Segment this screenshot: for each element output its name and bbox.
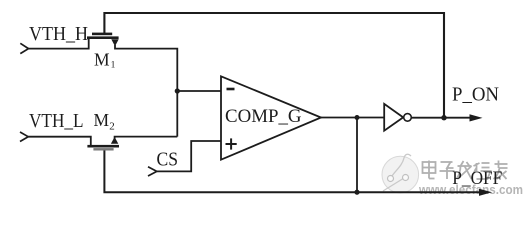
svg-text:2: 2: [109, 120, 115, 132]
input chevron VTH_L: [20, 132, 28, 142]
top rail wire (M1 gate to P_ON node): [104, 13, 444, 117]
svg-text:M: M: [94, 49, 110, 69]
wire VTH_H to M1 source: [29, 39, 89, 49]
wire inverter output to P_ON arrow: [411, 117, 475, 119]
svg-text:VTH_L: VTH_L: [29, 111, 84, 132]
plus input symbol: [226, 138, 237, 149]
svg-text:CS: CS: [157, 148, 179, 170]
minus input symbol: [227, 88, 235, 91]
input chevron VTH_H: [20, 43, 28, 53]
wire output node down to bottom rail: [356, 118, 358, 193]
wire M2 drain to junction A: [115, 137, 178, 143]
svg-text:1: 1: [111, 60, 116, 70]
input chevron CS: [148, 167, 157, 176]
svg-text:M: M: [94, 110, 110, 130]
transistor M1: [87, 33, 119, 47]
svg-text:VTH_H: VTH_H: [29, 24, 88, 45]
wire M2 gate to bottom rail: [104, 150, 484, 192]
junction dot P_ON node: [441, 115, 446, 120]
wire VTH_L to M2 source: [28, 137, 91, 146]
inverter U2: [384, 104, 403, 131]
junction dot node A: [175, 88, 180, 93]
wire M1 drain to junction A: [115, 45, 177, 137]
watermark logo circle: [382, 154, 419, 193]
wire CS to comparator plus input: [157, 141, 221, 171]
junction dot comparator output: [355, 115, 360, 120]
svg-text:P_ON: P_ON: [452, 84, 499, 105]
output arrow P_ON: [470, 114, 483, 121]
svg-text:COMP_G: COMP_G: [225, 107, 302, 127]
output arrow P_OFF: [479, 189, 492, 196]
svg-text:P_OFF: P_OFF: [452, 169, 502, 189]
inverter bubble: [404, 114, 412, 122]
junction dot bottom rail: [354, 190, 359, 195]
wire junction A to comparator minus input: [177, 90, 221, 92]
wire comparator output to inverter: [321, 117, 384, 119]
transistor M2: [87, 137, 119, 151]
op-amp comparator U1: [221, 76, 321, 159]
watermark chinese text 电子发烧友 (approximated glyphs): [423, 161, 508, 180]
